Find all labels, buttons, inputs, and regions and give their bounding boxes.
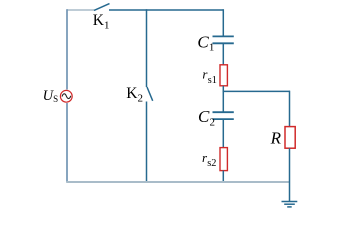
svg-text:S: S [53, 94, 58, 104]
wire rs2 to bottom [222, 171, 224, 183]
switch K1 arm [94, 4, 110, 11]
wire right vertical lower (R to ground) [289, 148, 291, 201]
wire top-right from K1 to right branch corner [109, 9, 223, 11]
wire C2 to rs2 [222, 119, 224, 148]
svg-text:C: C [198, 107, 210, 126]
svg-text:s1: s1 [208, 75, 217, 86]
svg-text:R: R [270, 128, 282, 147]
source US circle with sine [60, 90, 72, 102]
wire left vertical lower [66, 103, 68, 182]
svg-text:2: 2 [210, 116, 216, 128]
resistor rs2 [220, 148, 227, 171]
wire middle vertical upper [146, 9, 148, 87]
wire C1 to rs1 [222, 43, 224, 65]
capacitor C2 plates [213, 112, 234, 119]
svg-text:K2: K2 [126, 85, 143, 105]
wire right branch top corner down to C1 [222, 9, 224, 36]
wire middle vertical lower [146, 102, 148, 183]
wire bottom [66, 181, 290, 183]
wire right vertical upper (junction to R) [289, 91, 291, 127]
svg-text:1: 1 [209, 42, 215, 54]
resistor rs1 [220, 65, 227, 86]
resistor R [285, 127, 295, 149]
wire top-left from left corner to switch K1 [67, 9, 94, 11]
wire left vertical upper [66, 9, 68, 89]
svg-text:K1: K1 [93, 12, 110, 31]
wire junction to right branch with R [223, 90, 290, 92]
ground symbol [282, 202, 298, 207]
svg-text:s2: s2 [207, 158, 216, 169]
svg-text:C: C [197, 32, 209, 51]
switch K2 arm [147, 87, 153, 101]
wire rs1 to C2 [222, 86, 224, 112]
capacitor C1 plates [213, 36, 234, 43]
